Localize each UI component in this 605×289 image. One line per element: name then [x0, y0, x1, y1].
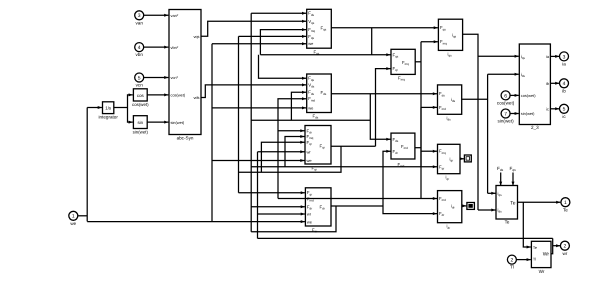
wire Te output to port1 [518, 201, 561, 203]
wire ic to port5 [550, 108, 559, 110]
svg-text:cos(wet): cos(wet) [497, 101, 515, 106]
output port 5 ic [560, 104, 569, 113]
wire Fqs output to iqs [331, 27, 438, 29]
svg-text:Te: Te [510, 200, 516, 206]
wire sin output to abc-Syn [147, 121, 168, 123]
svg-text:cos(wet): cos(wet) [171, 93, 186, 98]
wire branch to cos block [128, 95, 133, 108]
wire vbn to abc-Syn [144, 46, 169, 48]
terminator block A [464, 155, 471, 162]
svg-text:4: 4 [563, 81, 566, 87]
iqs current block [438, 19, 462, 50]
svg-text:van*: van* [171, 13, 179, 18]
wire cos(wet) to 2_3 [510, 94, 519, 96]
wire wr to Fqr input4 [258, 151, 305, 153]
svg-text:sin(wet): sin(wet) [133, 130, 149, 135]
wire we bus horizontal [87, 221, 305, 223]
svg-text:we: we [307, 220, 313, 225]
svg-text:1: 1 [564, 200, 567, 206]
svg-text:1/s: 1/s [105, 106, 112, 111]
Fqr flux block [305, 126, 331, 165]
svg-text:4: 4 [138, 45, 141, 51]
svg-text:integrator: integrator [98, 115, 118, 120]
wire cos output to abc-Syn [147, 94, 168, 96]
wire we to Fqs [212, 43, 306, 45]
svg-text:ib: ib [546, 81, 549, 86]
wire Fqr to Fqs.in4 [239, 35, 307, 37]
wire Fqr self riser to Fqr.in3 [261, 142, 304, 172]
wire Fds branch down to Fmd input1 [370, 94, 390, 140]
svg-text:sin: sin [137, 120, 143, 125]
wire we to integrator [87, 107, 102, 109]
wire iqs to 2_3 input1 [478, 55, 519, 57]
svg-text:vcn*: vcn* [171, 75, 179, 80]
svg-text:sin(wet): sin(wet) [498, 119, 515, 124]
Fmd block [391, 133, 415, 159]
wire Fmd to Fqr input1 [278, 130, 305, 132]
svg-text:3: 3 [138, 13, 141, 19]
wire Fmq feed line y166 to iqr input2 [251, 166, 437, 168]
wire iqs to Te input2 [478, 209, 496, 211]
wire harness long vertical x251 [250, 13, 252, 232]
input port 5 vcn [135, 73, 144, 82]
wire Fqs stub into Te top [512, 173, 514, 186]
wire idr output to terminator B [462, 205, 467, 207]
wire Wr output up [551, 238, 553, 253]
wire Fmd to ids input2 [421, 106, 437, 108]
wire we riser x212 [211, 44, 213, 222]
svg-text:sin(wet): sin(wet) [171, 120, 185, 125]
wire ib to port4 [550, 82, 559, 84]
svg-text:vbn*: vbn* [171, 45, 179, 50]
svg-text:abc-Syn: abc-Syn [177, 136, 194, 141]
svg-text:van: van [135, 20, 143, 25]
svg-text:we: we [308, 41, 314, 46]
integrator block 1/s [103, 102, 114, 114]
wire ids to 2_3 input2 [488, 73, 519, 75]
wire Fqr output to riser [331, 145, 376, 147]
output port 3 ia [560, 52, 569, 61]
wire Te branch down to Wr [523, 202, 531, 247]
svg-text:vqs: vqs [193, 34, 199, 39]
svg-text:vds: vds [193, 95, 199, 100]
svg-text:cos(wet): cos(wet) [132, 102, 149, 107]
svg-text:3: 3 [563, 54, 566, 60]
svg-text:we: we [307, 158, 313, 163]
svg-text:Te: Te [533, 245, 537, 250]
Wr speed block [531, 241, 551, 267]
input port 2 Tl [507, 255, 516, 264]
input port 7 sin(wet) [501, 109, 510, 118]
svg-text:7: 7 [504, 111, 507, 117]
wire Tl to Wr [516, 259, 530, 261]
Te torque block [496, 186, 518, 220]
wire Fqr to Fdr.in1 [239, 192, 305, 194]
wire van to abc-Syn [144, 14, 169, 16]
svg-text:Wr: Wr [543, 252, 550, 258]
wire Fmq to iqr input1 [421, 150, 437, 152]
wire sin(wet) to 2_3 [510, 113, 519, 115]
cos block [133, 89, 147, 101]
wire Fmd riser x420 [420, 107, 422, 198]
svg-text:Tl: Tl [510, 265, 514, 270]
svg-text:2: 2 [511, 258, 514, 264]
wire Fdr self to Fdr input3 [251, 206, 305, 208]
wire Fqr harness vertical x238 [238, 36, 240, 192]
svg-text:Te: Te [563, 207, 568, 212]
svg-text:Wr: Wr [539, 269, 545, 274]
Fqs flux block [307, 9, 332, 48]
wire Fmd feed line y198 to idr input1 [278, 198, 437, 200]
wire Fqr riser up to Fmq input2 [376, 69, 391, 147]
output port 2 wr [560, 241, 569, 250]
svg-text:2_3: 2_3 [531, 125, 539, 130]
input port 6 cos(wet) [501, 91, 510, 100]
2_3 conversion block [519, 44, 550, 125]
terminator block B [467, 203, 475, 210]
input port 1 we [69, 211, 78, 220]
wire Wr to port2 [553, 245, 561, 247]
svg-text:6: 6 [504, 93, 507, 99]
wire Fds self riser to Fds.in3 [291, 92, 306, 120]
wire Fdr riser down to idr input2 [383, 206, 437, 214]
wire Fmq riser to Fqr input2 [285, 137, 305, 167]
svg-text:we: we [70, 221, 76, 226]
wire Fmd output stub [415, 147, 421, 149]
svg-text:vbn: vbn [135, 52, 143, 57]
svg-text:wr: wr [307, 149, 312, 154]
wire we from port1 to junction [78, 215, 87, 217]
Fds flux block [307, 74, 332, 113]
svg-text:ic: ic [546, 106, 549, 111]
svg-text:5: 5 [138, 75, 141, 81]
wire Fdr output to riser [331, 205, 383, 207]
input port 3 van [135, 11, 144, 20]
wire Fds to Fqs input1 [251, 12, 306, 14]
Fmq block [391, 49, 415, 74]
svg-text:wr: wr [562, 251, 567, 256]
svg-text:Te: Te [505, 220, 510, 225]
wire Fmq output stub [415, 61, 421, 63]
wire Fqs branch down to Fmq feed line [371, 28, 373, 55]
idr current block [438, 191, 462, 223]
iqr current block [438, 144, 461, 173]
wire ids output riser x487 [462, 98, 488, 100]
wire wr to Fdr input4 [258, 213, 305, 215]
wire wr bus y238 [258, 237, 553, 239]
sin block [133, 116, 147, 129]
svg-text:ib: ib [562, 88, 566, 93]
wire Fqs self-feedback riser [260, 30, 306, 55]
abc-Syn conversion block [169, 10, 201, 135]
wire branch to sin block [128, 108, 133, 123]
wire we vertical riser x87 [86, 108, 88, 222]
svg-text:cos: cos [137, 93, 145, 98]
svg-text:Tl: Tl [533, 257, 536, 262]
wire ids to Te input1 [488, 192, 496, 194]
wire iqs output riser x478 [463, 34, 478, 210]
wire Fds branch to left harness [251, 119, 370, 121]
wire iqr output to terminator A [460, 158, 464, 160]
wire Fqs feed line to Fmq input1 [260, 54, 390, 56]
wire wr riser x257 [257, 152, 259, 239]
wire Fqs line to Fds.in1 [259, 55, 307, 78]
ids current block [438, 85, 462, 114]
wire ids riser vertical [487, 74, 489, 193]
wire Fmq riser x422 [420, 42, 422, 167]
Fdr flux block [305, 188, 331, 226]
wire we to Fds [212, 107, 306, 109]
wire Fmq to iqs input2 [421, 41, 438, 43]
wire ia to port3 [550, 55, 559, 57]
wire we to Fqr [212, 160, 305, 162]
svg-text:ia: ia [562, 62, 566, 67]
wire vcn to abc-Syn [144, 77, 169, 79]
output port 4 ib [560, 79, 569, 88]
svg-text:wr: wr [307, 212, 312, 217]
wire Fqr branch to left harness [239, 146, 342, 172]
svg-text:2: 2 [564, 244, 567, 250]
svg-text:we: we [308, 105, 314, 110]
svg-text:5: 5 [563, 107, 566, 113]
wire Fdr self loop under block [251, 206, 336, 232]
wire Fds output to ids [331, 93, 437, 95]
svg-text:sin(wet): sin(wet) [521, 111, 535, 116]
svg-text:cos(wet): cos(wet) [521, 93, 536, 98]
svg-text:1: 1 [72, 214, 75, 220]
wire Fmd riser x278 to Fds input4 [278, 99, 306, 199]
output port 1 Te [561, 198, 570, 207]
svg-text:vcn: vcn [136, 83, 144, 88]
input port 4 vbn [135, 43, 144, 52]
wire integrator output to cos/sin branch [114, 107, 128, 109]
wire Fdr riser up to Fmd input2 [383, 151, 391, 206]
wire Fds stub into Te top [500, 173, 502, 186]
wire vds from abc-Syn to Fds [201, 85, 306, 98]
wire vqs from abc-Syn to Fqs [201, 21, 306, 36]
